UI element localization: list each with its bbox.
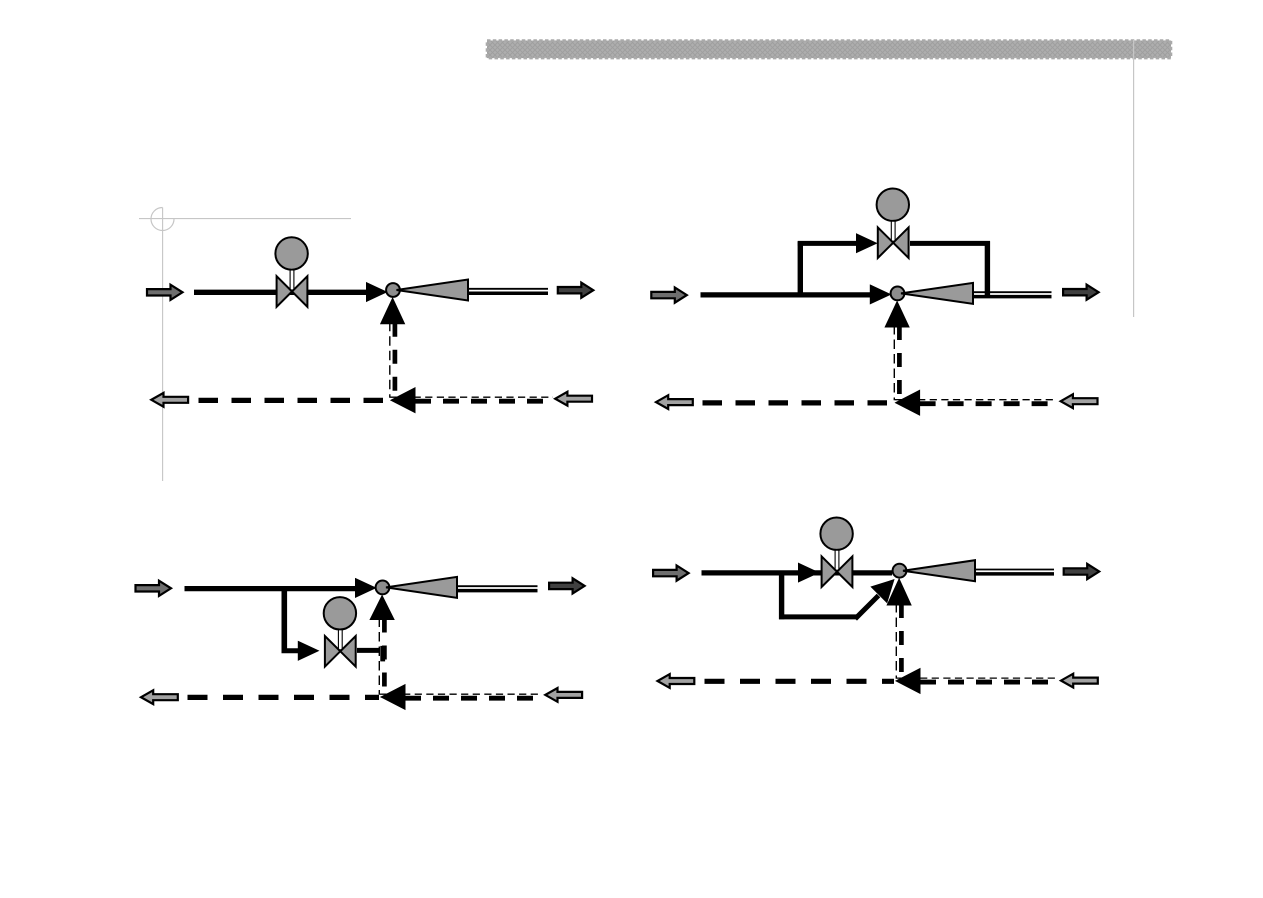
control riser thin dashed D1	[389, 322, 391, 398]
control valve actuator circle D4	[820, 518, 852, 550]
return pipe dashed right D3	[405, 696, 542, 701]
jet pump cone D1	[397, 280, 469, 301]
branch pipe after valve D3	[357, 648, 380, 653]
control valve actuator circle D3	[324, 597, 356, 629]
return arrowhead D1	[391, 388, 415, 413]
sensing line dotted D3	[380, 693, 542, 695]
supply pipe D1	[194, 290, 372, 295]
supply pipe D2	[701, 292, 876, 297]
inlet flow arrow D2	[651, 288, 687, 303]
sensing line dotted D2	[895, 399, 1057, 401]
return outlet arrow D3	[141, 690, 178, 704]
return pipe dashed left D1	[199, 398, 390, 403]
control up arrow D2	[885, 302, 909, 327]
mixing node D3	[376, 581, 390, 595]
control riser thick dashed D1	[393, 323, 398, 398]
jet pump cone D3	[386, 577, 457, 598]
discharge double line D4	[975, 569, 1054, 571]
branch end cap D3	[380, 646, 385, 662]
return pipe dashed left D3	[188, 695, 380, 700]
return outlet arrow D4	[658, 674, 695, 688]
valve stem D3	[338, 630, 342, 650]
inlet flow arrow D4	[653, 566, 689, 581]
return outlet arrow D2	[656, 395, 693, 409]
inlet flow arrow D1	[147, 285, 183, 300]
control riser thin dashed D4	[895, 603, 897, 679]
control valve actuator circle D2	[877, 189, 909, 221]
return inlet arrow D3	[545, 688, 582, 702]
control riser thick dashed D4	[899, 604, 904, 678]
header bar	[487, 41, 1171, 59]
supply arrowhead into node D2	[870, 285, 890, 304]
outlet flow arrow D1	[558, 283, 594, 298]
outlet flow arrow D2	[1063, 285, 1099, 300]
return pipe dashed left D4	[705, 679, 895, 684]
control riser thick dashed D2	[897, 326, 902, 400]
registration mark	[151, 208, 174, 231]
supply pipe D4	[702, 570, 893, 575]
return arrowhead D2	[896, 390, 920, 415]
supply arrowhead into node D1	[367, 283, 387, 302]
outlet flow arrow D4	[1064, 564, 1100, 579]
return arrowhead D3	[381, 685, 405, 710]
control valve actuator circle D1	[275, 237, 307, 269]
control up arrow D4	[887, 579, 911, 605]
bypass arrowhead D2	[857, 234, 877, 253]
valve stem D4	[835, 550, 839, 570]
jet pump cone D4	[903, 560, 975, 581]
vertical guide line	[162, 208, 164, 482]
return pipe dashed left D2	[703, 400, 894, 405]
valve stem D1	[290, 270, 294, 290]
sensing line dotted D4	[897, 677, 1058, 679]
bypass top pipe D2	[798, 241, 857, 246]
mixing node D2	[891, 287, 905, 301]
return inlet arrow D1	[555, 392, 592, 406]
horizontal guide line	[139, 218, 351, 220]
supply arrowhead before valve D4	[799, 563, 819, 582]
mixing node D1	[386, 283, 400, 297]
discharge double line D2	[973, 291, 1052, 293]
valve body D1	[277, 276, 292, 307]
control riser thin dashed D3	[378, 618, 380, 695]
control up arrow D1	[381, 298, 405, 324]
return outlet arrow D1	[151, 393, 188, 407]
bypass diagonal arrowhead D4	[871, 580, 894, 603]
sensing line dotted D1	[390, 396, 553, 398]
discharge double line D3	[457, 585, 538, 587]
mixing node D4	[893, 564, 907, 578]
bypass riser left D2	[798, 241, 803, 294]
control riser thick dashed D3	[382, 619, 387, 695]
bypass diagonal pipe D4	[855, 596, 878, 619]
bypass pipe after valve D2	[910, 241, 990, 246]
return pipe dashed right D4	[920, 680, 1058, 685]
branch arrowhead D3	[298, 642, 318, 661]
control up arrow D3	[370, 596, 394, 620]
bypass downcomer D2	[985, 241, 990, 297]
branch bottom pipe D3	[282, 648, 299, 653]
jet pump cone D2	[901, 283, 973, 304]
return pipe dashed right D2	[920, 401, 1057, 406]
supply pipe D3	[185, 586, 362, 591]
branch tee riser D3	[281, 587, 287, 654]
return inlet arrow D4	[1061, 674, 1098, 688]
return arrowhead D4	[896, 669, 920, 694]
inlet flow arrow D3	[136, 581, 172, 596]
return inlet arrow D2	[1061, 394, 1098, 408]
valve body D4	[822, 556, 837, 587]
return pipe dashed right D1	[415, 399, 553, 404]
valve body D3	[325, 636, 340, 667]
valve stem D2	[891, 221, 895, 241]
bypass bottom pipe D4	[779, 614, 857, 619]
valve body D2	[878, 227, 893, 258]
supply arrowhead into node D3	[356, 579, 376, 598]
discharge double line D1	[468, 288, 548, 290]
bypass downleg D4	[779, 571, 784, 619]
right margin guide line	[1133, 40, 1135, 317]
control riser thin dashed D2	[893, 325, 895, 400]
outlet flow arrow D3	[549, 578, 585, 593]
